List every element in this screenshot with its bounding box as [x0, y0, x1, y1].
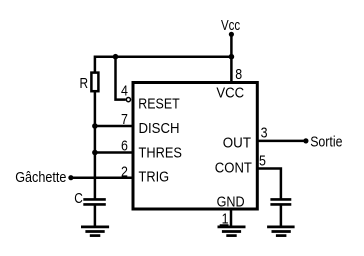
svg-text:7: 7: [121, 111, 128, 128]
wire pin 5 CONT to capacitor: [258, 169, 281, 200]
wire Vcc vertical to pin 8: [230, 34, 233, 81]
wire pin 3 OUT to Sortie: [258, 140, 306, 143]
svg-text:THRES: THRES: [139, 144, 182, 161]
svg-text:3: 3: [261, 124, 268, 141]
junction reset branch: [113, 54, 119, 60]
svg-text:Sortie: Sortie: [310, 134, 342, 151]
op-amp U1 555 IC box: [133, 83, 257, 210]
svg-text:GND: GND: [217, 194, 245, 211]
pin 1 underline: [220, 224, 229, 226]
svg-text:5: 5: [259, 153, 266, 170]
svg-text:VCC: VCC: [216, 84, 244, 101]
node Vcc terminal dot: [229, 32, 234, 37]
node Sortie terminal dot: [303, 138, 308, 143]
wire pin 6 THRES: [95, 151, 133, 154]
ground under pin 1: [218, 227, 246, 236]
svg-text:4: 4: [121, 83, 128, 100]
ground under C: [81, 227, 109, 236]
svg-text:6: 6: [121, 138, 128, 155]
svg-text:DISCH: DISCH: [139, 120, 180, 137]
pin 4 bubble: [126, 98, 130, 102]
wire reset branch down to pin 4: [116, 57, 126, 100]
wire pin 2 TRIG from Gachette: [71, 176, 133, 179]
svg-text:RESET: RESET: [138, 96, 179, 113]
wire top horizontal from resistor to Vcc line: [95, 57, 232, 72]
svg-text:R: R: [80, 75, 89, 92]
resistor R1 body: [91, 73, 98, 92]
wire left vertical (resistor to capacitor C): [94, 72, 97, 199]
wire pin 1 GND to ground: [230, 209, 233, 227]
svg-text:CONT: CONT: [215, 159, 252, 176]
capacitor C top plate: [83, 198, 106, 201]
wire capacitor C to ground: [94, 204, 97, 227]
junction pin7: [92, 123, 98, 129]
capacitor C2 bottom plate: [270, 203, 291, 206]
capacitor C bottom plate: [83, 203, 106, 206]
wire capacitor C2 to ground: [280, 204, 283, 227]
svg-text:OUT: OUT: [223, 134, 251, 151]
svg-text:TRIG: TRIG: [139, 169, 170, 186]
node Gachette terminal dot: [68, 175, 73, 180]
junction Vcc/top-wire: [229, 54, 235, 60]
ground under C2: [267, 227, 295, 236]
svg-text:Vcc: Vcc: [221, 17, 241, 34]
wire pin 7 DISCH: [95, 125, 133, 128]
junction pin6: [92, 150, 98, 156]
capacitor C2 top plate: [270, 198, 291, 201]
svg-text:C: C: [74, 190, 83, 207]
svg-text:Gâchette: Gâchette: [15, 169, 66, 186]
svg-text:8: 8: [235, 66, 242, 83]
svg-text:2: 2: [121, 163, 128, 180]
